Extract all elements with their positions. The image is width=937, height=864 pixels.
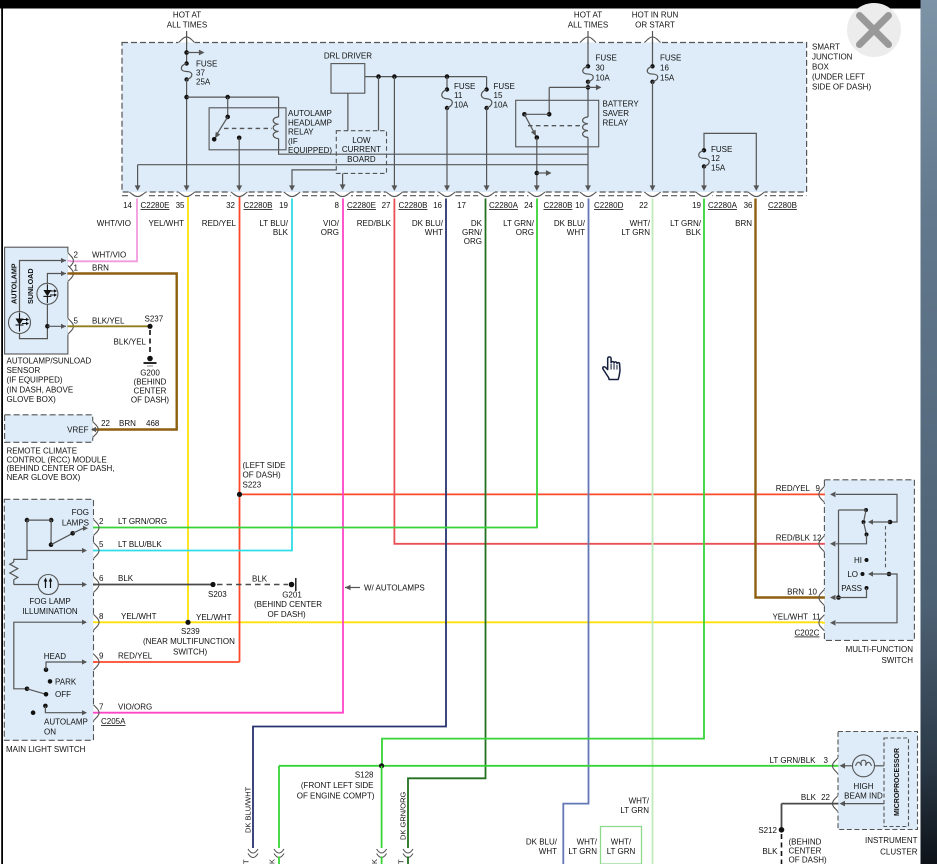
svg-text:(IF: (IF (288, 137, 298, 146)
WHT/LT GRN boxed label (601, 827, 642, 864)
svg-text:(NEAR MULTIFUNCTION: (NEAR MULTIFUNCTION (143, 637, 235, 646)
JB pin bump at 588 (580, 191, 597, 192)
svg-text:MAIN LIGHT SWITCH: MAIN LIGHT SWITCH (6, 745, 86, 754)
svg-text:10: 10 (575, 201, 584, 210)
svg-text:9: 9 (99, 652, 104, 661)
svg-text:ALL TIMES: ALL TIMES (568, 21, 608, 30)
svg-text:YEL/WHT: YEL/WHT (772, 613, 808, 622)
svg-text:BRN: BRN (787, 588, 804, 597)
JB pin bump at 342.6 (334, 191, 351, 192)
svg-text:S203: S203 (208, 590, 227, 599)
svg-text:G201: G201 (282, 591, 302, 600)
svg-text:468: 468 (146, 419, 160, 428)
resistor (10, 562, 18, 580)
svg-text:C205A: C205A (101, 717, 126, 726)
svg-text:BLK/YEL: BLK/YEL (92, 316, 125, 325)
svg-text:10A: 10A (494, 101, 509, 110)
svg-text:YEL/WHT: YEL/WHT (148, 219, 184, 228)
HI LO PASS contacts (865, 558, 869, 562)
dashed BLK to G201 (217, 584, 288, 586)
svg-text:GLOVE BOX): GLOVE BOX) (7, 395, 57, 404)
svg-text:8: 8 (99, 612, 104, 621)
svg-text:VIO/: VIO/ (323, 219, 340, 228)
fuse F37 25A (184, 61, 188, 65)
svg-text:22: 22 (101, 419, 110, 428)
svg-text:G200: G200 (140, 369, 160, 378)
svg-text:RED/YEL: RED/YEL (118, 652, 153, 661)
svg-text:16: 16 (433, 201, 442, 210)
sensor internal wiring (20, 261, 67, 312)
wire WHT/LT GRN (652, 199, 654, 864)
svg-text:OF DASH): OF DASH) (789, 856, 828, 864)
cluster pin 3 bracket (838, 757, 839, 774)
svg-text:PARK: PARK (55, 678, 77, 687)
pin5 wire inside (27, 550, 86, 552)
LT GRN/BLK horizontal to cluster (279, 765, 837, 767)
svg-text:BLK: BLK (801, 793, 817, 802)
relay U1 switch (225, 115, 230, 120)
svg-text:(BEHIND: (BEHIND (789, 838, 822, 847)
svg-text:14: 14 (123, 201, 132, 210)
wire RED/YEL vertical (239, 197, 241, 662)
svg-text:CONTROL (RCC) MODULE: CONTROL (RCC) MODULE (7, 455, 107, 464)
left page border (1, 9, 3, 864)
svg-text:(BEHIND CENTER OF DASH,: (BEHIND CENTER OF DASH, (7, 464, 115, 473)
fog lamp switch (25, 518, 30, 523)
smart junction box (dashed) (122, 43, 807, 193)
svg-text:WHT: WHT (567, 228, 585, 237)
wire DK BLU/WHT 1 (253, 199, 446, 849)
svg-text:BRN: BRN (92, 264, 109, 273)
microprocessor box (884, 738, 909, 827)
svg-text:12: 12 (813, 534, 822, 543)
svg-text:C2280E: C2280E (141, 201, 170, 210)
high beam indicator lamp (853, 755, 875, 777)
svg-text:RELAY: RELAY (288, 128, 314, 137)
pin 22 wire inside (845, 803, 884, 805)
dashed BLK/YEL to ground (149, 330, 151, 355)
svg-text:HI: HI (854, 556, 862, 565)
DK BLU/WHT bottom connector (248, 849, 258, 853)
wire BRN (756, 199, 825, 598)
cluster pin 22 bracket (838, 795, 839, 812)
svg-text:BRN: BRN (735, 219, 752, 228)
svg-text:5: 5 (74, 316, 79, 325)
wire BLK to S212 (782, 803, 837, 805)
wire to pin 27 (393, 77, 395, 188)
wire to relay coil (187, 96, 279, 98)
feed wire fuse 37 branch (186, 31, 188, 64)
svg-text:DK: DK (471, 219, 483, 228)
svg-text:OF DASH): OF DASH) (131, 396, 170, 405)
svg-text:C2280D: C2280D (594, 201, 624, 210)
svg-text:WHT: WHT (425, 228, 443, 237)
svg-text:HOT AT: HOT AT (574, 11, 602, 20)
svg-text:LOW: LOW (352, 136, 371, 145)
park contact (48, 679, 53, 684)
svg-text:NEAR GLOVE BOX): NEAR GLOVE BOX) (7, 473, 81, 482)
svg-text:T: T (397, 859, 406, 864)
svg-text:INSTRUMENT: INSTRUMENT (865, 836, 918, 845)
svg-text:FUSE: FUSE (196, 60, 217, 69)
svg-text:WHT/: WHT/ (611, 838, 632, 847)
svg-text:(BEHIND: (BEHIND (134, 378, 167, 387)
RCC module box (5, 415, 93, 443)
svg-text:2: 2 (99, 517, 104, 526)
svg-text:LT GRN: LT GRN (620, 806, 649, 815)
svg-text:LO: LO (847, 570, 858, 579)
JB pin bump at 486.6 (478, 191, 495, 192)
wire WHT/VIO (70, 199, 137, 262)
wire RED/BLK (394, 199, 824, 544)
switch pins (92, 519, 93, 536)
splice S223 (237, 492, 242, 497)
JB top entry at 652.5 (644, 43, 661, 44)
svg-text:10A: 10A (454, 101, 469, 110)
svg-text:DK BLU/: DK BLU/ (554, 219, 586, 228)
svg-text:8: 8 (335, 201, 340, 210)
head contact (44, 667, 49, 672)
svg-text:SAVER: SAVER (603, 109, 630, 118)
svg-text:ORG: ORG (464, 237, 482, 246)
svg-text:7: 7 (99, 702, 104, 711)
svg-text:(BEHIND CENTER: (BEHIND CENTER (254, 600, 322, 609)
off contact / pivot (25, 687, 30, 692)
MFS pin brackets (824, 486, 825, 503)
wires A/B visible through board (336, 153, 386, 155)
svg-text:19: 19 (279, 201, 288, 210)
sunload photodiode (37, 283, 58, 304)
splice S128 (379, 763, 384, 768)
svg-text:T: T (242, 859, 251, 864)
pin11 path (836, 574, 897, 623)
svg-text:DRL DRIVER: DRL DRIVER (324, 52, 372, 61)
svg-text:1: 1 (74, 264, 79, 273)
svg-text:FUSE: FUSE (660, 54, 681, 63)
svg-text:C202C: C202C (795, 629, 820, 638)
svg-text:11: 11 (454, 91, 463, 100)
wire VIO/ORG (91, 199, 344, 713)
svg-text:16: 16 (660, 64, 669, 73)
board stub to pin 19 (292, 170, 336, 188)
svg-text:ORG: ORG (516, 228, 534, 237)
svg-text:15: 15 (494, 91, 503, 100)
JB pin bump at 704 (696, 191, 713, 192)
svg-text:C2280B: C2280B (244, 201, 273, 210)
svg-text:RED/YEL: RED/YEL (202, 219, 237, 228)
svg-text:BRN: BRN (119, 419, 136, 428)
svg-text:WHT/VIO: WHT/VIO (97, 219, 131, 228)
JB pin bump at 652.5 (644, 191, 661, 192)
svg-text:LT GRN/ORG: LT GRN/ORG (118, 517, 167, 526)
autolamp photodiode (9, 312, 31, 334)
svg-text:BLK: BLK (273, 228, 289, 237)
svg-text:2: 2 (74, 251, 79, 260)
main light switch box (4, 499, 93, 740)
svg-text:LT GRN: LT GRN (621, 228, 650, 237)
svg-text:3: 3 (824, 756, 829, 765)
svg-text:ALL TIMES: ALL TIMES (167, 21, 207, 30)
lower pivot (887, 572, 892, 577)
JB top entry at 588 (580, 43, 597, 44)
svg-text:OF ENGINE COMPT): OF ENGINE COMPT) (297, 791, 375, 800)
JB pin bump at 756.3 (748, 191, 765, 192)
svg-text:K: K (370, 859, 379, 864)
svg-text:CURRENT: CURRENT (342, 145, 381, 154)
splice S239 (185, 620, 190, 625)
autolamp headlamp relay box (209, 108, 286, 150)
svg-text:RED/YEL: RED/YEL (776, 484, 811, 493)
svg-text:S239: S239 (181, 627, 200, 636)
drl right feed bus (365, 76, 487, 78)
svg-text:HEADLAMP: HEADLAMP (288, 118, 332, 127)
splice S203 (210, 582, 215, 587)
svg-text:FOG LAMP: FOG LAMP (29, 597, 70, 606)
svg-text:MICROPROCESSOR: MICROPROCESSOR (894, 748, 901, 816)
svg-text:FUSE: FUSE (454, 82, 475, 91)
relay output to pin 32 (238, 138, 240, 188)
svg-text:(IF EQUIPPED): (IF EQUIPPED) (7, 376, 63, 385)
svg-text:24: 24 (524, 201, 533, 210)
svg-text:WHT/VIO: WHT/VIO (92, 251, 126, 260)
wire BRN from sensor pin 1 (70, 274, 177, 430)
low current board box (336, 131, 386, 174)
wire RED/YEL to MFS pin 9 (240, 493, 825, 495)
svg-text:ILLUMINATION: ILLUMINATION (22, 607, 78, 616)
ground G200 (147, 356, 153, 362)
svg-text:12: 12 (711, 154, 720, 163)
svg-text:ORG: ORG (321, 228, 339, 237)
fog illumination lamp (14, 584, 39, 586)
fuse F11 10A (446, 77, 448, 90)
fuse 30 tap to relay (586, 85, 591, 90)
svg-text:BLK/YEL: BLK/YEL (114, 338, 147, 347)
svg-text:22: 22 (639, 201, 648, 210)
svg-text:C2280A: C2280A (708, 201, 738, 210)
svg-text:30: 30 (596, 64, 605, 73)
svg-text:25A: 25A (196, 78, 211, 87)
svg-text:AUTOLAMP: AUTOLAMP (288, 109, 332, 118)
svg-text:9: 9 (816, 484, 821, 493)
svg-text:DK GRN/ORG: DK GRN/ORG (399, 791, 408, 840)
svg-text:5: 5 (99, 540, 104, 549)
svg-text:OR START: OR START (635, 21, 675, 30)
JB pin bump at 394.4 (386, 191, 403, 192)
svg-text:S212: S212 (758, 826, 777, 835)
svg-text:(IN DASH, ABOVE: (IN DASH, ABOVE (7, 385, 74, 394)
svg-text:K: K (268, 859, 277, 864)
svg-text:SWITCH): SWITCH) (173, 648, 208, 657)
drl bottom to board (347, 93, 349, 131)
svg-text:VIO/ORG: VIO/ORG (118, 702, 152, 711)
wire YEL/WHT horizontal (93, 621, 825, 623)
svg-text:LT GRN/: LT GRN/ (503, 219, 535, 228)
DK GRN/ORG bottom connector (403, 849, 413, 853)
svg-text:BLK: BLK (762, 847, 778, 856)
svg-text:DK BLU/: DK BLU/ (526, 838, 558, 847)
wire RED/YEL to switch pin 9 (93, 661, 240, 663)
svg-text:RED/BLK: RED/BLK (776, 534, 811, 543)
svg-text:WHT/: WHT/ (629, 797, 650, 806)
w/ autolamps note (345, 585, 351, 591)
svg-text:MULTI-FUNCTION: MULTI-FUNCTION (846, 645, 914, 654)
board bottom to pin 8 (342, 173, 344, 188)
multi-function switch box (824, 480, 914, 641)
pin10 path (836, 588, 867, 598)
JB pin bump at 292 (284, 191, 301, 192)
svg-text:RELAY: RELAY (603, 119, 629, 128)
svg-text:RED/BLK: RED/BLK (357, 219, 392, 228)
svg-text:C2280E: C2280E (347, 201, 376, 210)
svg-text:17: 17 (457, 201, 466, 210)
svg-text:ON: ON (44, 728, 56, 737)
splice S237 (147, 324, 152, 329)
sensor pins (67, 252, 68, 269)
svg-text:SENSOR: SENSOR (7, 366, 41, 375)
svg-text:BATTERY: BATTERY (603, 100, 640, 109)
svg-text:35: 35 (176, 201, 185, 210)
fuse F15 10A (486, 77, 488, 90)
relay output to pin 24 with tap (536, 138, 538, 189)
svg-text:SWITCH: SWITCH (881, 656, 913, 665)
svg-text:VREF: VREF (67, 426, 88, 435)
svg-text:HOT AT: HOT AT (173, 11, 201, 20)
JB pin bump at 447 (439, 191, 456, 192)
relay U1 coil (273, 117, 278, 139)
svg-text:(UNDER LEFT: (UNDER LEFT (812, 73, 865, 82)
svg-text:OF DASH): OF DASH) (268, 610, 307, 619)
svg-text:FUSE: FUSE (711, 145, 732, 154)
svg-text:HOT IN RUN: HOT IN RUN (632, 11, 679, 20)
green drop at x279 (278, 766, 280, 848)
battery saver relay coil (583, 117, 588, 137)
low current board wires A/B (138, 164, 588, 166)
svg-text:HEAD: HEAD (44, 652, 66, 661)
autolamp/sunload sensor box (5, 247, 68, 354)
pin12 path (836, 535, 867, 544)
dashed BLK below S212 (781, 834, 783, 864)
svg-text:HIGH: HIGH (854, 782, 874, 791)
wire BLK/YEL (70, 325, 150, 327)
close (X) button (847, 3, 901, 57)
svg-text:FOG: FOG (72, 508, 89, 517)
svg-text:OF DASH): OF DASH) (243, 471, 282, 480)
svg-text:OFF: OFF (55, 690, 71, 699)
svg-text:SMART: SMART (812, 43, 840, 52)
svg-text:22: 22 (821, 793, 830, 802)
svg-text:GRN/: GRN/ (462, 228, 483, 237)
ground G201 (289, 582, 295, 588)
svg-text:19: 19 (692, 201, 701, 210)
svg-text:REMOTE CLIMATE: REMOTE CLIMATE (7, 447, 78, 456)
svg-text:LT BLU/BLK: LT BLU/BLK (118, 540, 162, 549)
svg-text:CENTER: CENTER (134, 387, 167, 396)
pin 14 riser (137, 165, 139, 188)
fuse F16 15A (652, 31, 654, 66)
wire DK GRN/ORG (408, 199, 486, 849)
svg-text:27: 27 (382, 201, 391, 210)
pin8 wire inside (14, 622, 86, 689)
svg-text:LT GRN/: LT GRN/ (670, 219, 702, 228)
fog switch common (14, 520, 27, 562)
junction dot under fuse 37 (184, 95, 189, 100)
svg-text:SIDE OF DASH): SIDE OF DASH) (812, 83, 871, 92)
wire YEL/WHT vertical (187, 197, 189, 622)
svg-text:C2280B: C2280B (768, 201, 797, 210)
svg-text:LT GRN: LT GRN (568, 847, 597, 856)
svg-text:FUSE: FUSE (596, 54, 617, 63)
wire BLK from pin 6 (93, 584, 213, 586)
svg-text:CLUSTER: CLUSTER (880, 848, 918, 857)
fuse F12 15A (704, 133, 756, 188)
svg-text:LAMPS: LAMPS (62, 519, 89, 528)
wire LT GRN/BLK (382, 199, 704, 766)
svg-text:BLK: BLK (252, 575, 268, 584)
MFS pin arrowheads (830, 492, 836, 498)
svg-text:10: 10 (808, 588, 817, 597)
svg-text:11: 11 (812, 613, 821, 622)
wire DK BLU/WHT 2 (563, 199, 588, 864)
JB top entry at 186.6 (178, 43, 195, 44)
drl driver box (331, 64, 365, 94)
svg-text:15A: 15A (711, 164, 726, 173)
svg-text:(FRONT LEFT SIDE: (FRONT LEFT SIDE (301, 781, 374, 790)
svg-text:WHT/: WHT/ (630, 219, 651, 228)
battery saver relay switch (547, 112, 552, 117)
svg-text:DK BLU/WHT: DK BLU/WHT (244, 786, 253, 833)
svg-text:WHT: WHT (539, 847, 557, 856)
svg-text:6: 6 (99, 574, 104, 583)
svg-text:CENTER: CENTER (789, 847, 822, 856)
svg-text:LT GRN/BLK: LT GRN/BLK (770, 756, 817, 765)
svg-text:LT GRN: LT GRN (607, 847, 636, 856)
instrument cluster box (838, 732, 918, 830)
svg-text:BOX: BOX (812, 63, 830, 72)
svg-text:(LEFT SIDE: (LEFT SIDE (243, 461, 286, 470)
svg-text:36: 36 (744, 201, 753, 210)
svg-text:32: 32 (226, 201, 235, 210)
svg-text:37: 37 (196, 69, 205, 78)
svg-text:SUNLOAD: SUNLOAD (26, 268, 35, 304)
svg-text:AUTOLAMP: AUTOLAMP (10, 263, 19, 304)
dimmer contacts (862, 520, 866, 524)
wire LT GRN/ORG (93, 199, 537, 528)
JB connector face second dashed line (122, 195, 807, 197)
splice S212 (779, 827, 785, 833)
battery saver relay box (516, 100, 599, 147)
svg-text:DK BLU/: DK BLU/ (412, 219, 444, 228)
svg-text:BOARD: BOARD (347, 155, 376, 164)
svg-text:C2280B: C2280B (399, 201, 428, 210)
svg-text:BEAM IND: BEAM IND (844, 792, 883, 801)
svg-text:S128: S128 (355, 771, 374, 780)
JB pin bump at 137.6 (129, 191, 146, 192)
MFS internal: pin9 path (836, 494, 897, 522)
svg-text:PASS: PASS (841, 584, 862, 593)
svg-text:BLK: BLK (686, 228, 702, 237)
mouse cursor (hand) (603, 357, 620, 380)
svg-text:JUNCTION: JUNCTION (812, 53, 853, 62)
svg-text:WHT/: WHT/ (577, 838, 598, 847)
svg-text:15A: 15A (660, 74, 675, 83)
coil to pin 10 (587, 137, 589, 188)
svg-text:YEL/WHT: YEL/WHT (196, 613, 232, 622)
top black bar (0, 0, 921, 9)
svg-text:BLK: BLK (118, 574, 134, 583)
svg-text:LT BLU/: LT BLU/ (259, 219, 288, 228)
svg-text:10A: 10A (596, 74, 611, 83)
svg-text:YEL/WHT: YEL/WHT (121, 612, 157, 621)
